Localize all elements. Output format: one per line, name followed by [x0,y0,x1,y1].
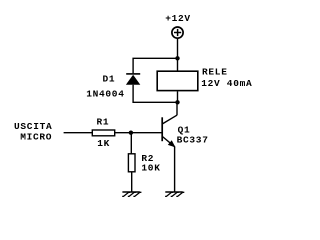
svg-text:RELE: RELE [202,66,228,77]
wire emitter to ground [174,147,176,192]
svg-text:D1: D1 [103,73,116,84]
wire relay to bottom node [177,91,179,102]
transistor Q1 BC337 [162,115,177,147]
svg-text:1K: 1K [97,138,110,149]
wire supply to top node [177,39,179,59]
svg-text:MICRO: MICRO [20,131,52,142]
relay coil box [157,71,198,90]
svg-text:R1: R1 [97,117,110,128]
resistor R1 [92,130,114,136]
node: bottom junction [175,100,179,104]
wire R1 to base [115,132,163,134]
svg-text:12V 40mA: 12V 40mA [201,78,252,89]
svg-text:10K: 10K [141,163,160,174]
wire input to R1 [64,132,92,134]
wire top node to diode branch [133,58,177,73]
wire top node into relay [177,58,179,70]
wire diode to bottom node [133,85,177,103]
node: base junction [129,131,133,135]
svg-text:1N4004: 1N4004 [86,89,124,100]
node: top junction [175,56,179,60]
svg-text:BC337: BC337 [177,134,209,145]
wire R2 to ground [131,172,133,192]
diode D1 1N4004 [126,74,140,85]
ground (right) [165,192,184,196]
wire bottom node to collector [176,102,178,115]
+12V supply terminal [172,27,183,38]
resistor R2 [128,154,135,172]
ground (left) [122,192,141,196]
svg-text:+12V: +12V [165,13,191,24]
wire junction to R2 [130,133,132,154]
